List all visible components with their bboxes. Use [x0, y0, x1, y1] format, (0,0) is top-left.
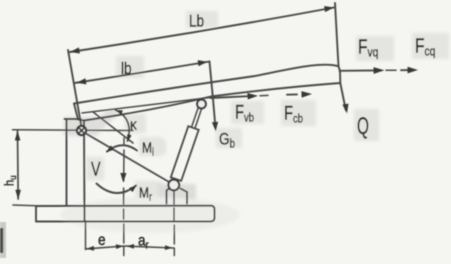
wire: beam left edge	[74, 104, 84, 121]
dim extension (hu bottom)	[13, 204, 36, 207]
dim line e	[86, 246, 125, 249]
cylinder bottom pin	[168, 180, 179, 191]
column top edge	[65, 118, 81, 120]
angle kappa arc	[116, 110, 130, 141]
force Gb arrowhead	[212, 122, 218, 132]
dim extension left (Lb/lb)	[68, 50, 82, 130]
dim extension right of lb + Gb arrow shaft	[210, 62, 216, 129]
moment Mr arc	[97, 184, 137, 194]
wire: beam right edge continuing to Q arrow	[335, 3, 346, 110]
wire: beam top edge	[74, 65, 339, 104]
svg-text:κ: κ	[130, 117, 138, 134]
dim line lb	[75, 62, 210, 84]
svg-text:Lb: Lb	[189, 12, 204, 31]
column right edge + extension below base	[83, 122, 86, 221]
svg-text:e: e	[98, 232, 106, 249]
svg-text:Q: Q	[357, 114, 369, 140]
cylinder top pin	[197, 100, 206, 109]
pivot joint circle	[77, 126, 86, 135]
dim line hu	[17, 131, 20, 199]
force Fvb arrow line	[211, 96, 250, 98]
hydraulic cylinder rod	[192, 108, 202, 128]
force Fvq arrow line	[340, 69, 377, 71]
scan artifact	[0, 222, 6, 258]
wire: diagonal pivot to cylinder base	[85, 133, 169, 182]
column left edge	[66, 119, 68, 206]
force V arrowhead	[120, 173, 126, 183]
dim line Lb	[70, 8, 334, 53]
hydraulic cylinder barrel	[171, 126, 199, 181]
wire: wedge line near pivot	[93, 112, 133, 143]
moment Mi arc	[107, 145, 137, 151]
horizontal reference line through pivot	[13, 129, 134, 132]
dim line ar	[125, 246, 174, 248]
svg-text:lb: lb	[121, 60, 132, 79]
centerline column axis / V line	[123, 138, 125, 256]
svg-text:V: V	[91, 159, 101, 180]
cylinder base bracket	[167, 188, 188, 204]
force Q arrowhead	[342, 104, 348, 114]
scan shading patches	[60, 11, 449, 233]
centerline cylinder axis below pin	[173, 191, 175, 256]
base plate	[36, 206, 215, 222]
wire: beam inner lower line	[82, 98, 210, 114]
wire: beam bottom edge	[84, 83, 340, 121]
